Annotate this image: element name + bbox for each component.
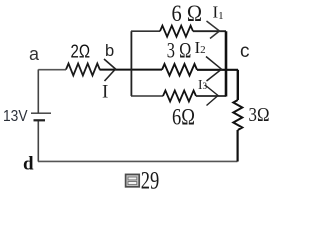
- svg-text:6Ω: 6Ω: [172, 105, 195, 130]
- svg-text:3 Ω: 3 Ω: [167, 38, 192, 63]
- svg-text:b: b: [105, 42, 114, 60]
- svg-text:I: I: [102, 82, 108, 103]
- svg-text:c: c: [240, 41, 250, 62]
- svg-text:3Ω: 3Ω: [249, 104, 270, 126]
- svg-text:2Ω: 2Ω: [71, 42, 91, 62]
- svg-text:29: 29: [141, 168, 160, 195]
- svg-text:6 Ω: 6 Ω: [172, 1, 203, 26]
- svg-text:d: d: [23, 154, 34, 175]
- svg-text:13V: 13V: [3, 108, 28, 125]
- svg-text:a: a: [29, 44, 40, 64]
